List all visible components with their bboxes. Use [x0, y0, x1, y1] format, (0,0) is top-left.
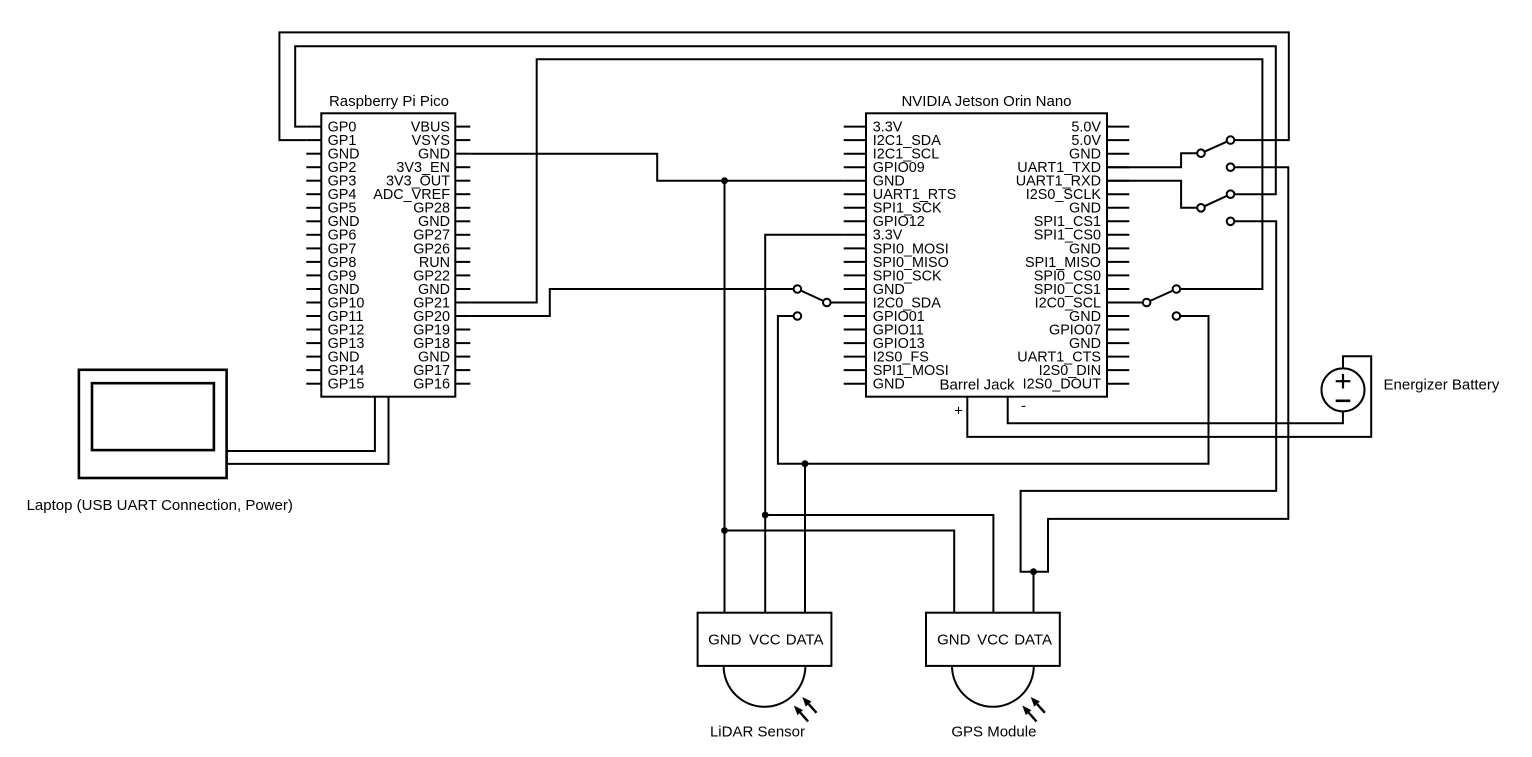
U1 pin GP13 (left 17)	[306, 336, 364, 352]
wire Pico GP20 to I2C0_SDA switch contact	[470, 289, 797, 316]
U1 pin GP18 (right 17)	[413, 336, 470, 352]
U1 pin GP27 (right 9)	[413, 228, 470, 244]
U2 pin SPI0_CS1 (right 13)	[1034, 282, 1130, 298]
Raspberry Pi Pico U1	[321, 93, 455, 397]
U1 pin ADC_VREF (right 6)	[373, 187, 470, 203]
U1 pin GP10 (left 14)	[306, 295, 364, 311]
U1 pin GP22 (right 12)	[413, 268, 470, 284]
U2 pin UART1_TXD (right 4)	[1017, 160, 1129, 176]
switch SW2 I2C0_SCL: arm	[1143, 285, 1180, 320]
U2 pin SPI0_MISO (left 11)	[844, 255, 949, 271]
U2 pin GPIO12 (left 8)	[844, 214, 925, 230]
U2 pin GND (right 17)	[1069, 336, 1129, 352]
U2 pin GPIO07 (right 16)	[1049, 322, 1129, 338]
wire laptop to Pico bottom (USB UART)	[227, 397, 375, 451]
svg-text:Raspberry Pi Pico: Raspberry Pi Pico	[329, 93, 449, 110]
U1 pin RUN (right 11)	[419, 255, 470, 271]
laptop	[79, 370, 227, 478]
svg-text:-: -	[1021, 398, 1026, 415]
wire GPS DATA drop	[1033, 572, 1035, 613]
svg-text:DATA: DATA	[786, 632, 824, 649]
svg-text:NVIDIA Jetson Orin Nano: NVIDIA Jetson Orin Nano	[901, 93, 1071, 110]
U1 pin VBUS (right 1)	[411, 120, 471, 136]
U2 pin I2C0_SCL (right 14)	[1035, 295, 1130, 311]
U2 pin GND (left 5)	[844, 174, 905, 190]
switch SW3 UART1_TXD: arm	[1197, 136, 1234, 171]
U1 pin GP26 (right 10)	[413, 241, 470, 257]
U2 pin I2C1_SCL (left 3)	[844, 147, 940, 163]
U2 pin GPIO11 (left 16)	[844, 322, 924, 338]
U2 pin 5.0V (right 2)	[1071, 133, 1129, 149]
wire GPS DATA net to open contacts of UART switches	[1021, 167, 1289, 572]
svg-text:GND: GND	[937, 632, 971, 649]
Barrel Jack label on U2	[939, 377, 1015, 394]
U1 pin GP7 (left 10)	[306, 241, 356, 257]
U2 pin I2C1_SDA (left 2)	[844, 133, 941, 149]
svg-text:Barrel Jack: Barrel Jack	[939, 377, 1015, 394]
U1 pin GND (left 3)	[306, 147, 359, 163]
U2 pin I2S0_FS (left 18)	[844, 350, 929, 366]
U2 pin GPIO01 (left 15)	[844, 309, 925, 325]
U2 pin GND (left 20)	[844, 377, 905, 393]
U1 pin 3V3_EN (right 4)	[396, 160, 470, 176]
wire Pico GP1 to UART1_TXD switch contact (via top)	[279, 32, 1288, 140]
U2 pin UART1_RTS (left 6)	[844, 187, 957, 203]
LiDAR dome	[724, 666, 806, 707]
U2 pin SPI1_CS0 (right 9)	[1034, 228, 1130, 244]
U2 pin GND (right 7)	[1069, 201, 1129, 217]
GPS arrow 2	[1031, 697, 1045, 713]
U2 pin SPI0_CS0 (right 12)	[1034, 268, 1130, 284]
battery BT1 (Energizer)	[1322, 368, 1365, 411]
U1 pin GP5 (left 7)	[306, 201, 356, 217]
U1 pin GND (left 13)	[306, 282, 359, 298]
GPS label	[951, 723, 1036, 740]
node GND junction at LiDAR drop	[721, 177, 728, 184]
U2 pin GPIO09 (left 4)	[844, 160, 925, 176]
svg-text:I2S0_DOUT: I2S0_DOUT	[1023, 377, 1102, 393]
U1 pin GP15 (left 20)	[306, 377, 364, 393]
LiDAR module box	[698, 613, 832, 666]
wire I2C0_SDA switch pivot to pin	[827, 302, 866, 304]
U2 pin SPI1_MOSI (left 19)	[844, 363, 949, 379]
svg-text:GND: GND	[708, 632, 742, 649]
U1 pin GP6 (left 9)	[306, 228, 356, 244]
LiDAR label	[710, 723, 805, 740]
U2 pin I2S0_DOUT (right 20)	[1023, 377, 1130, 393]
U2 pin UART1_RXD (right 5)	[1016, 174, 1130, 190]
U2 pin GND (right 10)	[1069, 241, 1129, 257]
U1 pin GND (right 18)	[418, 350, 470, 366]
laptop label	[27, 497, 293, 514]
U2 pin SPI1_CS1 (right 8)	[1034, 214, 1130, 230]
svg-text:VCC: VCC	[977, 632, 1009, 649]
switch SW4 UART1_RXD: arm	[1197, 190, 1234, 225]
svg-text:GP16: GP16	[413, 377, 450, 393]
node GPS DATA junction	[1030, 568, 1037, 575]
U1 pin GP8 (left 11)	[306, 255, 356, 271]
wire GND branch down to LiDAR GND	[724, 181, 726, 613]
U1 pin GND (left 8)	[306, 214, 359, 230]
U1 pin GND (left 18)	[306, 350, 359, 366]
svg-text:Energizer Battery: Energizer Battery	[1384, 376, 1500, 393]
barrel jack - pin	[1008, 397, 1343, 424]
svg-text:GND: GND	[873, 377, 905, 393]
U1 pin GP20 (right 15)	[413, 309, 470, 325]
svg-text:GPS Module: GPS Module	[951, 723, 1036, 740]
U1 pin GP16 (right 20)	[413, 377, 470, 393]
U1 pin VSYS (right 2)	[412, 133, 471, 149]
U1 pin GND (right 8)	[418, 214, 470, 230]
U1 pin GP4 (left 6)	[306, 187, 356, 203]
svg-text:LiDAR Sensor: LiDAR Sensor	[710, 723, 805, 740]
wire Pico GP0 to UART1_RXD switch contact (via top)	[295, 46, 1276, 194]
LiDAR arrow 2	[802, 697, 816, 713]
U1 pin GP19 (right 16)	[413, 322, 470, 338]
svg-text:Laptop (USB UART Connection, P: Laptop (USB UART Connection, Power)	[27, 497, 293, 514]
GPS dome	[952, 666, 1034, 707]
node 3.3V junction at GPS branch	[762, 512, 769, 519]
U1 pin GP1 (left 2)	[306, 133, 356, 149]
wire LiDAR DATA drop	[804, 464, 806, 613]
U1 pin GP17 (right 19)	[413, 363, 470, 379]
U2 pin SPI0_SCK (left 12)	[844, 268, 942, 284]
wire Jetson UART1_RXD to switch pivot	[1107, 181, 1201, 208]
node GND junction at GPS branch	[721, 527, 728, 534]
wire 3.3V branch to GPS VCC	[765, 515, 993, 613]
U2 pin UART1_CTS (right 18)	[1017, 350, 1129, 366]
U2 pin GPIO13 (left 17)	[844, 336, 925, 352]
U1 pin GP0 (left 1)	[306, 120, 356, 136]
GPS module box	[926, 613, 1060, 666]
U2 pin I2S0_DIN (right 19)	[1039, 363, 1130, 379]
NVIDIA Jetson Orin Nano U2	[866, 93, 1107, 397]
U2 pin 3.3V (left 9)	[844, 228, 903, 244]
U2 pin SPI1_MISO (right 11)	[1025, 255, 1129, 271]
U2 pin GND (right 15)	[1069, 309, 1129, 325]
wire Pico GP21 to I2C0_SCL switch contact (via top)	[470, 59, 1262, 302]
U1 pin GP3 (left 5)	[306, 174, 356, 190]
wire Jetson UART1_TXD to switch pivot	[1107, 153, 1201, 167]
U2 pin I2S0_SCLK (right 6)	[1026, 187, 1130, 203]
wire LiDAR DATA net between open switch contacts	[778, 316, 1209, 464]
svg-text:+: +	[954, 402, 963, 419]
battery label	[1384, 376, 1500, 393]
U1 pin GP28 (right 7)	[413, 201, 470, 217]
node LiDAR DATA junction	[802, 460, 809, 467]
switch SW1 I2C0_SDA: arm	[794, 285, 831, 320]
U2 pin SPI0_MOSI (left 10)	[844, 241, 949, 257]
barrel jack + pin	[954, 356, 1371, 437]
LiDAR arrow 1	[794, 706, 808, 722]
U1 pin GP12 (left 16)	[306, 322, 364, 338]
svg-text:VCC: VCC	[749, 632, 781, 649]
U2 pin 5.0V (right 1)	[1071, 120, 1129, 136]
U1 pin GND (right 13)	[418, 282, 470, 298]
U1 pin GP21 (right 14)	[413, 295, 470, 311]
wire laptop to Pico bottom (power)	[227, 397, 389, 464]
U2 pin GND (right 3)	[1069, 147, 1129, 163]
svg-text:DATA: DATA	[1014, 632, 1052, 649]
U2 pin 3.3V (left 1)	[844, 120, 903, 136]
wire Jetson I2C0_SCL to switch pivot	[1107, 302, 1147, 304]
U1 pin GP9 (left 12)	[306, 268, 356, 284]
U2 pin GND (left 13)	[844, 282, 905, 298]
U1 pin 3V3_OUT (right 5)	[386, 174, 470, 190]
wire GND branch to GPS GND	[725, 531, 955, 613]
U1 pin GP11 (left 15)	[306, 309, 363, 325]
GPS arrow 1	[1022, 706, 1036, 722]
wire 3.3V net: Jetson 3.3V down to LiDAR VCC	[765, 235, 844, 613]
svg-text:GP15: GP15	[328, 377, 365, 393]
U1 pin GND (right 3)	[418, 147, 470, 163]
U1 pin GP2 (left 4)	[306, 160, 356, 176]
U2 pin I2C0_SDA (left 14)	[844, 295, 941, 311]
wire GND net: Pico GND to Jetson GND	[470, 154, 843, 181]
U2 pin SPI1_SCK (left 7)	[844, 201, 942, 217]
U1 pin GP14 (left 19)	[306, 363, 364, 379]
